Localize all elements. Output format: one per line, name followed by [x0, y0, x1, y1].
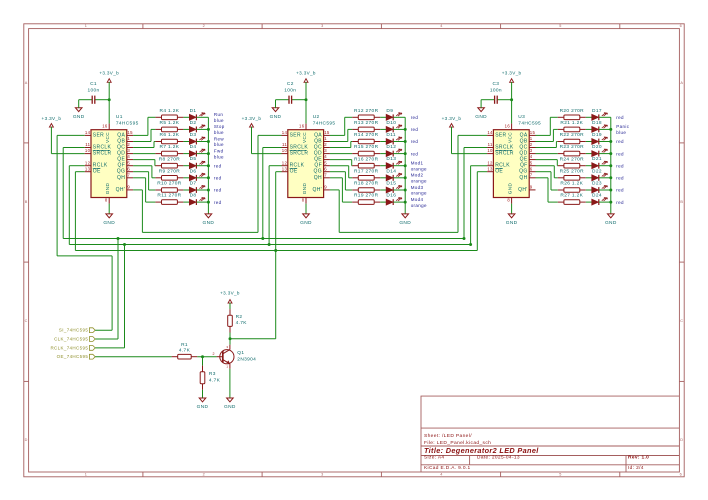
- wire from RCLK_74HC595: [95, 347, 124, 349]
- U2 pin 10 SRCLR: [282, 148, 309, 156]
- wire R4 to D1: [183, 116, 189, 118]
- wire D13 cathode to bus: [393, 165, 405, 167]
- svg-text:2: 2: [127, 142, 130, 147]
- shift register U2 74HC595 body: [288, 114, 336, 197]
- wire SRCLR tie to pin: [252, 153, 282, 155]
- resistor R10 270R: [155, 181, 183, 193]
- svg-text:D18: D18: [592, 120, 602, 126]
- LED D4: [189, 144, 205, 156]
- transistor Q1 2N3904: [212, 345, 256, 369]
- svg-text:R17 270R: R17 270R: [354, 168, 379, 174]
- svg-text:QG: QG: [314, 169, 322, 175]
- U3 pin 5 QF: [520, 160, 536, 168]
- resistor R21 1.2K: [558, 120, 586, 132]
- U2 pin 16 VCC: [299, 124, 307, 143]
- wire OE riser (U3): [477, 171, 487, 173]
- junction (D8 cathode): [207, 201, 210, 204]
- ground symbol (U3): [506, 214, 518, 226]
- junction (D16 cathode): [404, 201, 407, 204]
- svg-text:Mod3: Mod3: [411, 185, 424, 190]
- svg-text:blue: blue: [214, 130, 224, 135]
- LED D17: [592, 108, 608, 120]
- wire D12 cathode to bus: [393, 153, 405, 155]
- svg-text:D1: D1: [190, 108, 197, 114]
- svg-text:+3.3V_b: +3.3V_b: [502, 71, 522, 76]
- wire R11 to D8: [183, 201, 189, 203]
- svg-text:GND: GND: [300, 220, 312, 226]
- U3 pin 6 QG: [519, 166, 535, 174]
- svg-text:C: C: [680, 319, 683, 323]
- LED D9: [386, 108, 402, 120]
- svg-text:+3.3V_b: +3.3V_b: [99, 71, 119, 76]
- junction (D3 cathode): [207, 140, 210, 143]
- svg-text:1: 1: [324, 136, 327, 141]
- wire R20 to D17: [586, 116, 592, 118]
- resistor R27 1.2K: [558, 193, 586, 205]
- svg-text:SRCLR: SRCLR: [93, 151, 112, 157]
- svg-text:red: red: [214, 163, 222, 168]
- svg-text:R26 1.2K: R26 1.2K: [560, 181, 583, 187]
- LED D15: [386, 181, 402, 193]
- svg-text:QE: QE: [314, 157, 322, 163]
- svg-text:blue: blue: [214, 118, 224, 123]
- svg-text:GND: GND: [197, 404, 209, 410]
- svg-text:RCLK_74HC595: RCLK_74HC595: [50, 345, 88, 350]
- svg-text:R5 1.2K: R5 1.2K: [160, 120, 180, 126]
- U3 pin 11 SRCLK: [487, 142, 514, 150]
- svg-text:3: 3: [321, 472, 323, 476]
- svg-text:red: red: [616, 115, 624, 120]
- U1 pin 11 SRCLK: [85, 142, 112, 150]
- wire SI feed: [57, 255, 112, 257]
- U2 pin 1 QB: [314, 136, 330, 144]
- wire D22 cathode to bus: [599, 177, 611, 179]
- junction (D15 cathode): [404, 189, 407, 192]
- wire U3 QA to R20: [536, 117, 558, 135]
- svg-text:GND: GND: [399, 220, 411, 226]
- svg-text:VCC: VCC: [105, 132, 110, 143]
- junction (RCLK bus at U2): [268, 243, 271, 246]
- U3 pin 8 GND: [507, 183, 512, 204]
- svg-text:3: 3: [530, 148, 533, 153]
- svg-text:OE: OE: [495, 169, 503, 175]
- wire U1 QF to R9: [133, 166, 155, 178]
- svg-text:+3.3V_b: +3.3V_b: [242, 116, 262, 121]
- U1 pin 2 QC: [117, 142, 133, 150]
- U2 pin 12 RCLK: [282, 160, 305, 168]
- svg-text:100n: 100n: [87, 87, 99, 93]
- U1 pin 5 QF: [118, 160, 134, 168]
- junction (D6 cathode): [207, 176, 210, 179]
- svg-text:Date: 2025-04-13: Date: 2025-04-13: [477, 455, 520, 461]
- wire D10 cathode to bus: [393, 128, 405, 130]
- svg-text:2: 2: [324, 142, 327, 147]
- svg-text:Rew: Rew: [214, 136, 224, 141]
- svg-text:R22 270R: R22 270R: [560, 132, 585, 138]
- svg-text:red: red: [214, 188, 222, 193]
- svg-text:6: 6: [680, 472, 682, 476]
- svg-text:GND: GND: [224, 404, 236, 410]
- wire D2 cathode to bus: [197, 128, 209, 130]
- svg-text:Mod2: Mod2: [411, 173, 424, 178]
- wire D19 cathode to bus: [599, 141, 611, 143]
- svg-text:SI_74HC595: SI_74HC595: [59, 328, 88, 333]
- U3 pin 14 SER: [487, 130, 506, 138]
- LED D19: [592, 132, 608, 144]
- resistor R17 270R: [352, 168, 380, 180]
- wire U1 QG to R10: [133, 172, 155, 190]
- U1 pin 9 QH': [116, 185, 133, 193]
- svg-text:D12: D12: [386, 144, 396, 150]
- svg-text:red: red: [411, 115, 419, 120]
- LED D20: [592, 144, 608, 156]
- U3 pin 9 QH': [518, 185, 535, 193]
- ground symbol (C2): [270, 108, 282, 120]
- wire SRCLK riser (U3): [464, 147, 487, 149]
- svg-text:Panic: Panic: [616, 124, 629, 129]
- resistor R15 270R: [352, 144, 380, 156]
- wire U2 QH' daisy chain to U3 SER: [330, 190, 458, 233]
- wire U1 GND pin to ground: [108, 204, 110, 214]
- svg-text:+3.3V_b: +3.3V_b: [296, 71, 316, 76]
- svg-text:12: 12: [85, 160, 91, 165]
- shift register U1 74HC595 body: [91, 114, 139, 197]
- U3 pin 12 RCLK: [487, 160, 510, 168]
- svg-text:6: 6: [530, 166, 533, 171]
- resistor R4 1.2K: [155, 108, 183, 120]
- U1 pin 8 GND: [105, 183, 110, 204]
- ground symbol (C1): [73, 108, 85, 120]
- wire from SI_74HC595: [95, 329, 112, 331]
- ground symbol (U1): [103, 214, 115, 226]
- svg-text:D7: D7: [190, 181, 197, 187]
- U2 pin 3 QD: [314, 148, 330, 156]
- wire R2 to collector node: [229, 333, 231, 345]
- junction (SRCLK bus at U3): [463, 237, 466, 240]
- svg-text:2: 2: [530, 142, 533, 147]
- power flag +3.3V_b (SRCLR tie, left of U1): [42, 116, 62, 154]
- svg-text:D3: D3: [190, 132, 197, 138]
- svg-text:Stop: Stop: [214, 124, 225, 129]
- U2 pin 4 QE: [314, 154, 330, 162]
- svg-text:14: 14: [85, 130, 91, 135]
- svg-text:red: red: [411, 151, 419, 156]
- wire U2 QD to R15: [330, 153, 352, 155]
- svg-text:D21: D21: [592, 156, 602, 162]
- wire D17 cathode to bus: [599, 116, 611, 118]
- U1 pin 4 QE: [117, 154, 133, 162]
- svg-text:QG: QG: [519, 169, 527, 175]
- svg-text:1: 1: [226, 364, 228, 368]
- wire R15 to D12: [380, 153, 386, 155]
- U3 pin 2 QC: [519, 142, 535, 150]
- LED D24: [592, 193, 608, 205]
- U3 pin 16 VCC: [505, 124, 513, 143]
- svg-text:blue: blue: [214, 154, 224, 159]
- svg-text:100n: 100n: [490, 87, 502, 93]
- wire R24 to D21: [586, 165, 592, 167]
- resistor R19 270R: [352, 193, 380, 205]
- svg-text:7: 7: [127, 172, 130, 177]
- U1 pin 3 QD: [117, 148, 133, 156]
- U2 pin 6 QG: [314, 166, 330, 174]
- svg-text:3: 3: [127, 148, 130, 153]
- svg-text:QH: QH: [117, 175, 125, 181]
- junction (SRCLK bus at U2): [261, 237, 264, 240]
- svg-text:D: D: [680, 438, 683, 442]
- resistor R6 1.2K: [155, 132, 183, 144]
- svg-text:red: red: [214, 200, 222, 205]
- ground symbol (Q1 emitter): [224, 398, 236, 410]
- svg-text:8: 8: [302, 198, 305, 203]
- svg-text:KiCad E.D.A. 9.0.1: KiCad E.D.A. 9.0.1: [424, 465, 471, 471]
- wire R8 to D5: [183, 165, 189, 167]
- junction (D22 cathode): [609, 176, 612, 179]
- svg-text:Mod4: Mod4: [411, 197, 424, 202]
- resistor R9 270R: [155, 168, 183, 180]
- svg-text:D2: D2: [190, 120, 197, 126]
- junction (D4 cathode): [207, 152, 210, 155]
- ground symbol (U2): [300, 214, 312, 226]
- svg-text:Sheet: /LED Panel/: Sheet: /LED Panel/: [424, 433, 472, 439]
- U1 pin 13 OE: [85, 166, 101, 174]
- svg-text:QC: QC: [314, 145, 322, 151]
- U1 pin 15 QA: [117, 130, 133, 138]
- LED D12: [386, 144, 402, 156]
- LED D18: [592, 120, 608, 132]
- wire SER riser (U1): [57, 134, 85, 136]
- svg-text:6: 6: [680, 24, 682, 28]
- svg-text:R15 270R: R15 270R: [354, 144, 379, 150]
- svg-text:GND: GND: [270, 114, 282, 120]
- svg-text:R11 270R: R11 270R: [157, 193, 181, 199]
- LED D14: [386, 168, 402, 181]
- svg-text:red: red: [616, 176, 624, 181]
- ground symbol (LED bus block 3): [605, 214, 617, 226]
- wire R13 to D10: [380, 128, 386, 130]
- svg-text:4.7K: 4.7K: [236, 320, 248, 326]
- svg-text:15: 15: [324, 130, 330, 135]
- svg-text:QG: QG: [117, 169, 125, 175]
- junction (collector node): [229, 337, 232, 340]
- svg-text:4: 4: [324, 154, 327, 159]
- svg-text:R27 1.2K: R27 1.2K: [560, 193, 583, 199]
- wire OE riser (U2): [276, 171, 282, 173]
- svg-text:R10 270R: R10 270R: [157, 181, 182, 187]
- svg-text:B: B: [680, 200, 683, 204]
- resistor R16 270R: [352, 156, 380, 168]
- svg-text:GND: GND: [73, 114, 85, 120]
- U1 pin 12 RCLK: [85, 160, 108, 168]
- resistor R12 270R: [352, 108, 380, 120]
- svg-text:7: 7: [530, 172, 533, 177]
- wire RCLK riser (U2): [269, 165, 281, 167]
- wire D4 cathode to bus: [197, 153, 209, 155]
- svg-text:R6 1.2K: R6 1.2K: [160, 132, 180, 138]
- svg-text:6: 6: [127, 166, 130, 171]
- U2 pin 13 OE: [282, 166, 298, 174]
- wire D16 cathode to bus: [393, 201, 405, 203]
- LED D2: [189, 120, 205, 132]
- U2 pin 5 QF: [314, 160, 330, 168]
- wire R6 to D3: [183, 141, 189, 143]
- wire U3 QE to R24: [536, 160, 558, 166]
- junction (D21 cathode): [609, 164, 612, 167]
- svg-text:C3: C3: [492, 81, 499, 87]
- svg-text:U2: U2: [313, 114, 320, 120]
- svg-text:OE_74HC595: OE_74HC595: [57, 354, 89, 359]
- resistor R7 1.2K: [155, 144, 183, 156]
- wire R17 to D14: [380, 177, 386, 179]
- svg-text:QE: QE: [117, 157, 125, 163]
- svg-text:11: 11: [85, 142, 90, 147]
- wire OE riser (U1): [75, 171, 84, 173]
- LED D8: [189, 193, 205, 205]
- svg-text:14: 14: [487, 130, 493, 135]
- svg-text:C1: C1: [90, 81, 97, 87]
- wire R5 to D2: [183, 128, 189, 130]
- svg-text:13: 13: [487, 166, 493, 171]
- resistor R8 270R: [155, 156, 183, 168]
- wire D24 cathode to bus: [599, 201, 611, 203]
- svg-text:QH': QH': [312, 187, 322, 193]
- svg-text:GND: GND: [105, 183, 110, 195]
- LED D11: [386, 132, 402, 144]
- resistor R14 270R: [352, 132, 380, 144]
- wire SER riser (U2): [258, 134, 282, 136]
- hierarchical label CLK_74HC595: [54, 337, 95, 342]
- resistor R13 270R: [352, 120, 380, 132]
- svg-text:A: A: [25, 81, 28, 85]
- resistor R1 4.7K: [172, 342, 198, 359]
- svg-text:R13 270R: R13 270R: [354, 120, 379, 126]
- svg-text:CLK_74HC595: CLK_74HC595: [54, 337, 88, 342]
- U2 pin 15 QA: [314, 130, 330, 138]
- wire U1 QC to R6: [133, 142, 155, 148]
- U1 pin 14 SER: [85, 130, 104, 138]
- wire D14 cathode to bus: [393, 177, 405, 179]
- svg-text:2N3904: 2N3904: [237, 356, 256, 362]
- svg-text:R23 270R: R23 270R: [560, 144, 585, 150]
- power flag +3.3V_b (top of U1): [99, 71, 119, 100]
- wire U2 GND pin to ground: [305, 204, 307, 214]
- svg-text:3: 3: [226, 345, 228, 349]
- junction (VCC net at C3): [510, 98, 513, 101]
- svg-text:SRCLR: SRCLR: [495, 151, 514, 157]
- junction (D24 cathode): [609, 201, 612, 204]
- capacitor C3 100n: [481, 81, 512, 104]
- wire R25 to D22: [586, 177, 592, 179]
- svg-text:R9 270R: R9 270R: [159, 168, 181, 174]
- svg-text:GND: GND: [103, 220, 115, 226]
- ground symbol (LED bus block 2): [399, 214, 411, 226]
- power flag +3.3V_b (R2 pull-up): [220, 290, 240, 309]
- svg-text:9: 9: [127, 185, 130, 190]
- svg-text:7: 7: [324, 172, 327, 177]
- wire R16 to D13: [380, 165, 386, 167]
- svg-text:6: 6: [324, 166, 327, 171]
- U3 pin 1 QB: [520, 136, 536, 144]
- svg-text:blue: blue: [214, 142, 224, 147]
- svg-text:Size: A4: Size: A4: [424, 455, 444, 461]
- svg-text:red: red: [616, 163, 624, 168]
- svg-text:QE: QE: [520, 157, 528, 163]
- ground symbol (R3): [197, 398, 209, 410]
- wire SRCLK bus: [63, 238, 464, 240]
- wire D18 cathode to bus: [599, 128, 611, 130]
- wire U3 GND pin to ground: [511, 204, 513, 214]
- U1 pin 16 VCC: [102, 124, 110, 143]
- svg-text:8: 8: [105, 198, 108, 203]
- wire U2 QE to R16: [330, 160, 352, 166]
- wire R26 to D23: [586, 189, 592, 191]
- wire R12 to D9: [380, 116, 386, 118]
- svg-text:D6: D6: [190, 168, 197, 174]
- svg-text:R21 1.2K: R21 1.2K: [560, 120, 583, 126]
- svg-text:74HC595: 74HC595: [116, 121, 139, 127]
- wire SRCLK riser (U2): [263, 147, 282, 149]
- svg-text:5: 5: [127, 160, 130, 165]
- svg-text:2: 2: [203, 24, 205, 28]
- wire U1 QD to R7: [133, 153, 155, 155]
- svg-text:Mod1: Mod1: [411, 161, 424, 166]
- U1 pin 7 QH: [117, 172, 133, 180]
- svg-text:File: LED_Panel.kicad_sch: File: LED_Panel.kicad_sch: [424, 440, 491, 446]
- svg-text:D4: D4: [190, 144, 197, 150]
- wire R1 to Q1 base: [197, 356, 216, 358]
- junction (D23 cathode): [609, 189, 612, 192]
- wire SER riser (U3): [458, 134, 487, 136]
- svg-text:SER: SER: [495, 132, 506, 138]
- svg-text:OE: OE: [93, 169, 101, 175]
- shift register U3 74HC595 body: [493, 114, 541, 197]
- svg-text:D15: D15: [386, 181, 396, 187]
- junction (base node): [201, 355, 204, 358]
- svg-text:SRCLK: SRCLK: [290, 145, 309, 151]
- svg-text:12: 12: [487, 160, 493, 165]
- wire R14 to D11: [380, 141, 386, 143]
- svg-text:D19: D19: [592, 132, 602, 138]
- wire R7 to D4: [183, 153, 189, 155]
- junction (RCLK feed): [123, 243, 126, 246]
- svg-text:5: 5: [324, 160, 327, 165]
- wire R10 to D7: [183, 189, 189, 191]
- resistor R18 270R: [352, 181, 380, 193]
- wire U2 QG to R18: [330, 172, 352, 190]
- LED D5: [189, 156, 205, 168]
- wire RCLK bus: [69, 244, 470, 246]
- svg-text:D11: D11: [386, 132, 396, 138]
- wire U3 QH to R27: [536, 178, 558, 202]
- svg-text:5: 5: [559, 472, 561, 476]
- wire D11 cathode to bus: [393, 141, 405, 143]
- capacitor C1 100n: [79, 81, 110, 104]
- svg-text:SER: SER: [290, 132, 301, 138]
- svg-text:D20: D20: [592, 144, 602, 150]
- svg-text:QH': QH': [518, 187, 528, 193]
- svg-text:GND: GND: [508, 183, 513, 195]
- svg-text:D22: D22: [592, 168, 602, 174]
- svg-text:D14: D14: [386, 168, 396, 174]
- wire D5 cathode to bus: [197, 165, 209, 167]
- svg-text:100n: 100n: [284, 87, 296, 93]
- svg-text:D24: D24: [592, 193, 602, 199]
- wire LED cathode bus (block 1): [207, 117, 209, 214]
- hierarchical label OE_74HC595: [57, 354, 96, 359]
- svg-text:11: 11: [488, 142, 493, 147]
- svg-text:R12 270R: R12 270R: [354, 108, 379, 114]
- svg-text:14: 14: [282, 130, 288, 135]
